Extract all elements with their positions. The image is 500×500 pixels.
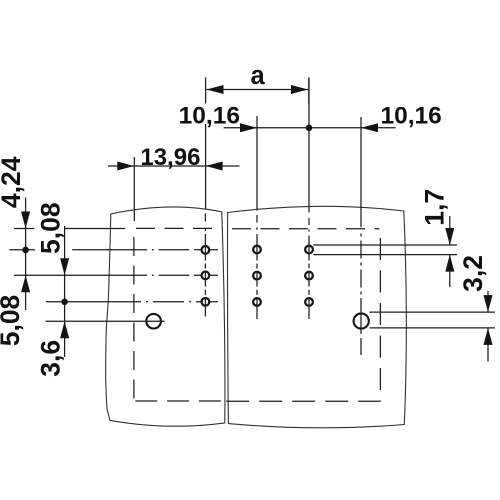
svg-text:5,08: 5,08 (36, 202, 66, 254)
svg-text:10,16: 10,16 (179, 102, 240, 129)
svg-text:a: a (251, 62, 266, 90)
svg-text:4,24: 4,24 (0, 156, 26, 208)
svg-text:1,7: 1,7 (420, 189, 450, 226)
svg-text:3,6: 3,6 (36, 340, 66, 377)
svg-text:10,16: 10,16 (380, 102, 441, 129)
svg-text:5,08: 5,08 (0, 295, 25, 347)
svg-text:3,2: 3,2 (458, 255, 488, 292)
svg-text:13,96: 13,96 (140, 144, 200, 171)
